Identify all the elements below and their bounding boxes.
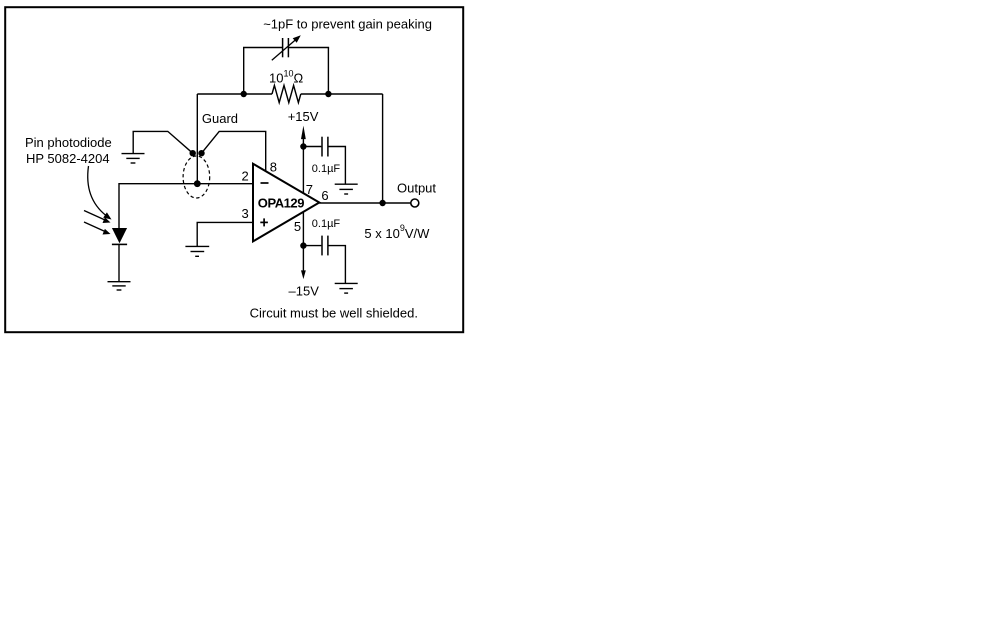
light arrow 2 <box>84 222 111 235</box>
svg-text:2: 2 <box>242 168 249 183</box>
wire: op-amp output <box>319 202 410 204</box>
wire: non-inverting input to ground <box>197 222 253 246</box>
node: -15V junction <box>300 242 306 248</box>
wire: feedback loop top-left vertical <box>243 48 245 95</box>
wire: -15V node to C3 <box>303 245 321 247</box>
op-amp non-inverting input plus sign <box>260 218 268 226</box>
wire: guard right arm to op-amp pin 8 <box>202 131 266 172</box>
svg-text:8: 8 <box>270 160 277 175</box>
ground: C3 <box>335 283 358 293</box>
op-amp U1 OPA129 triangle <box>253 164 319 242</box>
svg-text:Output: Output <box>397 181 436 196</box>
node: feedback right junction <box>325 91 331 97</box>
wire: photodiode cathode to ground <box>118 244 120 281</box>
wire: +15V node to C2 <box>303 146 321 148</box>
capacitor C1 ~1pF variable, plates <box>283 38 289 57</box>
light arrow 1 <box>84 211 111 224</box>
capacitor C2 0.1uF plates <box>322 137 328 157</box>
svg-text:Pin photodiode: Pin photodiode <box>25 135 112 150</box>
output terminal circle <box>411 199 419 207</box>
capacitor C3 0.1uF plates <box>322 236 328 256</box>
wire: summing node to R1 left <box>197 93 272 95</box>
wire: feedback cap top-left horizontal <box>243 47 282 49</box>
wire: feedback loop top-right vertical <box>327 48 329 95</box>
op-amp inverting input minus sign <box>261 182 269 184</box>
leader curved arrow to photodiode <box>88 166 112 220</box>
ground: photodiode <box>108 282 131 290</box>
svg-text:Guard: Guard <box>202 111 238 126</box>
wire: C3 to ground <box>329 246 346 284</box>
ground: non-inverting input <box>185 246 209 256</box>
wire: photodiode to inverting input <box>119 184 253 228</box>
ground: guard left <box>122 154 145 163</box>
node: summing junction (inverting input) <box>194 180 201 187</box>
svg-text:0.1µF: 0.1µF <box>312 218 341 230</box>
node: guard right dot <box>198 150 204 156</box>
node: output junction <box>379 200 385 206</box>
power arrow -15V <box>301 246 306 280</box>
wire: C2 to ground <box>329 147 346 185</box>
photodiode D1 <box>112 228 127 244</box>
wire: pin 7 to +15V node <box>302 147 304 194</box>
svg-text:OPA129: OPA129 <box>258 195 304 210</box>
wire: R1 right to output branch <box>301 93 383 95</box>
node: +15V junction <box>300 143 306 149</box>
ground: C2 <box>335 184 358 194</box>
node: feedback left junction <box>241 91 247 97</box>
power arrow +15V <box>301 126 306 147</box>
svg-text:6: 6 <box>321 188 328 203</box>
svg-text:3: 3 <box>242 206 249 221</box>
node: guard left dot <box>190 150 196 156</box>
wire: feedback vertical down to output node <box>382 94 384 203</box>
wire: feedback vertical down to summing node <box>196 94 198 184</box>
svg-text:7: 7 <box>306 182 313 197</box>
svg-text:5: 5 <box>294 219 301 234</box>
guard ring dashed ellipse <box>183 156 210 198</box>
svg-text:5 x 109V/W: 5 x 109V/W <box>364 223 430 241</box>
svg-text:HP 5082-4204: HP 5082-4204 <box>26 151 110 166</box>
svg-text:+15V: +15V <box>288 109 319 124</box>
wire: guard left arm to ground <box>133 131 193 153</box>
svg-text:Circuit must be well shielded.: Circuit must be well shielded. <box>250 306 418 321</box>
svg-text:–15V: –15V <box>289 284 320 299</box>
svg-text:~1pF to prevent gain peaking: ~1pF to prevent gain peaking <box>263 17 432 32</box>
resistor R1 zigzag <box>272 85 301 102</box>
svg-text:0.1µF: 0.1µF <box>312 163 341 175</box>
capacitor C1 variable arrow <box>272 35 301 60</box>
wire: pin 5 to -15V node <box>302 212 304 246</box>
wire: feedback cap top-right horizontal <box>289 47 329 49</box>
